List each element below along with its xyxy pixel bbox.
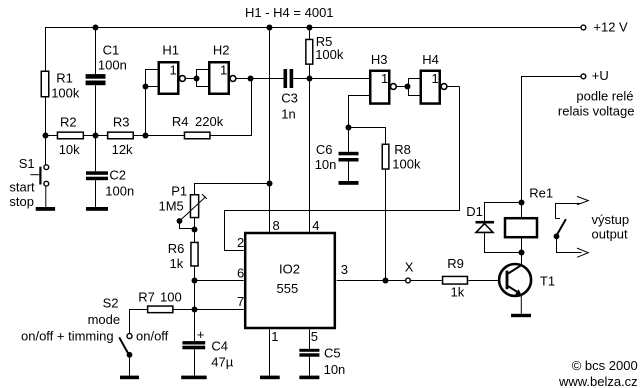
wire D1 top link [485,203,522,222]
svg-text:S2: S2 [103,295,119,310]
wire R5 top lead [309,28,311,40]
svg-text:podle relé: podle relé [576,88,633,103]
svg-text:C1: C1 [103,42,120,57]
wire relay contact bottom [557,236,582,252]
svg-text:R7: R7 [138,290,155,305]
ground S2 [120,376,139,380]
node junction H4 input [405,84,411,90]
svg-text:47µ: 47µ [211,355,233,370]
node junction pin6 [192,278,198,284]
svg-text:1: 1 [381,71,388,86]
wire R4 right lead to H2 output [210,79,252,136]
svg-text:220k: 220k [195,114,224,129]
wire C3 to H3 input [293,78,370,80]
node junction pin7-R7 [192,307,198,313]
wire X to R9 [410,280,441,282]
node junction R8-pin3 [383,278,389,284]
svg-text:7: 7 [237,294,244,309]
wire H1 input bracket [146,70,158,136]
arrow contact bottom [577,248,588,257]
resistor R8 [382,142,421,172]
node junction rail-C1 [93,25,99,31]
wire +12 to pin8 column [269,28,271,233]
resistor R6 [168,241,198,271]
node junction R1-R2-S1 [43,133,49,139]
svg-text:1: 1 [432,71,439,86]
resistor R5 [306,34,344,64]
ground C5 [299,376,319,380]
svg-text:IO2: IO2 [279,262,300,277]
wire C5 bottom lead [309,357,311,376]
wire R2 left lead [46,135,58,137]
node junction C1-R2-R3-C2 [93,133,99,139]
wire C4 bottom lead [194,349,196,375]
svg-text:R1: R1 [56,71,73,86]
label vystup output [592,212,630,241]
svg-text:D1: D1 [466,204,483,219]
svg-text:+12 V: +12 V [593,20,628,35]
pin H3 output bubble [391,84,397,90]
wire C2 top lead [95,136,97,172]
pin H1 output bubble [180,76,186,82]
potentiometer P1 [159,184,207,221]
capacitor C6 [315,142,359,172]
wire R5 bottom lead [309,65,311,79]
wire H3 output to H4 input [396,86,408,88]
wire P1 top lead [195,184,270,195]
wire H2 output to C3 [236,78,284,80]
wire +U to relay [522,77,582,203]
wire C2 bottom lead [95,180,97,207]
wire S1 top lead [45,136,47,165]
arrow contact top [577,196,588,204]
node junction P1-R6 [192,227,198,233]
ground pin1 [260,376,280,380]
switch relay contact blade [556,219,566,236]
wire pin 7 [195,309,244,311]
node junction rail-R5 [307,25,313,31]
svg-text:6: 6 [237,266,244,281]
resistor R1 [41,71,80,101]
ground C2 [86,207,108,211]
svg-text:C6: C6 [316,142,333,157]
wire pin 5 lead [309,330,311,349]
resistor R9 [443,256,468,299]
svg-text:100n: 100n [98,58,127,73]
svg-text:H3: H3 [371,52,388,67]
wire R7 left lead to S2 [130,310,148,334]
wire C6 top lead [348,128,350,152]
resistor R4 [172,114,224,139]
wire C1 bottom lead [95,85,97,135]
terminal +12V [581,20,628,35]
ground T1 [511,314,531,317]
node X [405,259,414,283]
svg-text:1M5: 1M5 [159,199,184,214]
node P1 wiper dot [177,218,183,224]
node junction pin8 column to P1 [267,181,273,187]
svg-text:3: 3 [341,262,348,277]
wire S1 bottom lead [45,186,47,207]
svg-text:C4: C4 [211,338,228,353]
svg-text:S1: S1 [19,156,35,171]
svg-text:4: 4 [312,218,319,233]
svg-text:H1: H1 [162,43,179,58]
wire R1 bottom lead [45,97,47,136]
svg-text:R3: R3 [113,114,130,129]
wire R1 top lead [45,28,47,72]
svg-text:H4: H4 [422,52,439,67]
svg-text:C5: C5 [324,345,341,360]
wire H1 output to H2 input [185,78,196,80]
diode D1 [466,204,494,233]
svg-text:100k: 100k [51,86,80,101]
resistor R2 [57,114,83,157]
svg-text:P1: P1 [171,184,187,199]
svg-text:R2: R2 [60,114,77,129]
capacitor C5 [299,345,345,377]
svg-text:1n: 1n [281,107,295,122]
wire H2 input bracket [197,70,210,87]
node junction H3in-C6-R8 [346,125,352,131]
label copyright [558,358,638,388]
wire pin 3 output row [337,280,406,282]
svg-text:100k: 100k [392,157,421,172]
capacitor C1 [86,42,127,85]
wire relay contact top [556,204,582,219]
wire junction to R8 [349,128,386,144]
wire R3-R4 link [133,135,184,137]
wire H3 lower input bracket [349,96,371,128]
wire H4 output lead [447,86,460,88]
wire pin4 column [309,79,311,233]
svg-text:1: 1 [170,62,177,77]
ground C6 [339,181,359,185]
resistor R3 [108,114,134,157]
wire P1 bottom lead [194,218,196,243]
switch S1 pushbutton [9,156,48,209]
svg-text:+U: +U [592,68,609,83]
switch S2 [21,295,169,354]
svg-text:100k: 100k [315,47,344,62]
capacitor C3 [281,69,298,122]
svg-text:100n: 100n [105,184,134,199]
capacitor C4 electrolytic [182,327,233,370]
svg-text:10n: 10n [324,362,346,377]
wire R2-R3 link [84,135,108,137]
svg-text:555: 555 [277,281,299,296]
gate H4 [421,52,440,103]
wire C1 top lead [95,28,97,75]
node junction relay top [519,200,525,206]
svg-text:© bcs 2000: © bcs 2000 [572,358,638,373]
pin H4 output bubble [441,84,447,90]
ground C4 [181,376,207,380]
svg-text:output: output [592,227,629,242]
wire T1 emitter lead [520,295,522,313]
svg-text:8: 8 [273,218,280,233]
wire S2 bottom lead [129,355,131,376]
op-amp IO2 555 chip body [245,233,335,328]
svg-text:relais voltage: relais voltage [558,103,635,118]
svg-text:mode: mode [88,312,121,327]
svg-text:C3: C3 [281,91,298,106]
svg-text:www.belza.cz: www.belza.cz [558,374,638,388]
wire R6 to C4 column [194,266,196,341]
svg-text:R4: R4 [172,114,189,129]
node junction H2 input [194,76,200,82]
wire P1 wiper link [180,221,195,229]
svg-text:Re1: Re1 [529,186,553,201]
node S2 bottom dot [127,352,133,358]
node junction H2out-R4-C3 [248,76,254,82]
svg-text:výstup: výstup [592,212,630,227]
transistor T1 [499,264,555,296]
node contact common dot [554,233,560,239]
svg-text:1: 1 [220,62,227,77]
svg-text:R8: R8 [394,142,411,157]
svg-text:12k: 12k [112,142,133,157]
node junction rail-pin8 [267,25,273,31]
svg-text:start: start [9,179,35,194]
node junction R3-R4-H1in [143,133,149,139]
wire H4 input bracket [409,79,421,96]
svg-text:R9: R9 [447,256,464,271]
pin H2 output bubble [230,76,236,82]
svg-text:C2: C2 [109,167,126,182]
svg-text:1k: 1k [170,256,184,271]
wire pin2 bracket from H4 output [225,87,460,251]
svg-text:+: + [197,327,205,342]
svg-text:X: X [405,259,414,274]
resistor R7 [138,290,182,313]
svg-text:10n: 10n [315,157,337,172]
svg-text:on/off: on/off [136,328,169,343]
gate H2 [209,43,229,94]
node junction relay bottom [519,250,525,256]
node junction C3-R5-pin4 [307,76,313,82]
terminal +U [558,68,635,118]
svg-text:10k: 10k [59,142,80,157]
svg-text:stop: stop [9,194,34,209]
wire D1 bottom link [485,232,522,252]
svg-text:100: 100 [160,290,182,305]
wire pin 6 [195,280,244,282]
svg-text:H1 - H4 = 4001: H1 - H4 = 4001 [245,5,334,20]
wire R7 right lead [173,309,195,311]
wire R8 bottom lead [385,170,387,281]
svg-text:5: 5 [311,329,318,344]
gate H1 [159,43,179,94]
svg-text:1k: 1k [451,284,465,299]
relay Re1 coil [505,186,553,253]
wire T1 collector lead [521,253,523,265]
ground S1 [36,207,55,211]
svg-text:2: 2 [237,235,244,250]
svg-text:1: 1 [271,329,278,344]
wire C6 bottom lead [348,162,350,182]
node junction H1 inputs [143,84,149,90]
wire +12V rail [45,27,581,29]
gate H3 [370,52,389,103]
svg-text:on/off + timming: on/off + timming [21,328,114,343]
wire R9 to T1 base [468,280,505,282]
wire pin 1 ground lead [269,330,271,376]
svg-text:H2: H2 [213,43,230,58]
svg-text:R6: R6 [168,241,185,256]
svg-text:T1: T1 [540,273,555,288]
capacitor C2 [86,167,134,198]
